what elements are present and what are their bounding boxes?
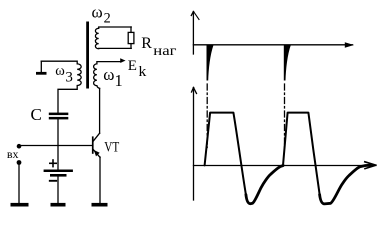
ground vx [11,203,29,207]
svg-text:наг: наг [153,43,177,58]
winding W3 coil [41,61,81,112]
svg-text:вх: вх [7,147,19,161]
waveform recovery curve 2 [320,165,371,204]
svg-text:3: 3 [65,69,73,85]
node dot vx bottom [17,160,22,165]
battery GB [44,170,73,173]
node dot vx top [17,144,22,149]
svg-text:1: 1 [115,71,123,90]
sync pulse 2 [284,45,291,81]
ground battery [51,203,66,207]
winding W1 coil [94,62,122,89]
winding W2 coil [95,27,131,49]
base wire [19,145,92,147]
svg-text:ω: ω [55,63,65,79]
bottom graph vertical axis [193,88,195,201]
top graph vertical axis [192,12,194,55]
wire collector (w1 to VT) [99,88,101,133]
svg-text:VT: VT [104,140,119,156]
svg-text:k: k [139,64,148,80]
transistor Q1 VT (PNP) [92,133,100,157]
svg-text:ω: ω [103,65,114,84]
wire emitter to ground [99,157,101,203]
svg-text:2: 2 [104,10,111,26]
transformer core [86,22,89,89]
wire vx to ground [18,164,20,203]
dash-dot line 2 [284,84,286,148]
wire cap to battery [57,119,59,169]
bottom graph horizontal axis [194,165,375,167]
sync pulse 1 [207,45,214,81]
svg-text:C: C [31,105,42,124]
svg-text:E: E [128,58,137,74]
chassis stub at w3 [40,61,42,72]
resistor Rnag [128,32,134,43]
waveform recovery curve 1 [246,166,283,204]
svg-text:R: R [141,35,152,52]
svg-text:ω: ω [92,3,103,22]
top graph horizontal axis [193,44,352,46]
dash-dot line 1 [206,84,208,148]
ground emitter [92,203,108,207]
sawtooth waveform edges [205,113,320,197]
Ek arrow [120,58,125,63]
capacitor C [49,113,69,116]
